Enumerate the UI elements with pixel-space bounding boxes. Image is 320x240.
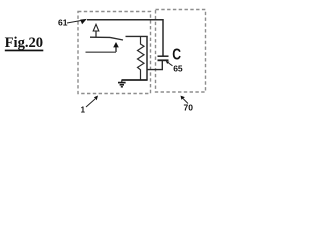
- leader arrow for 70: [181, 96, 189, 104]
- wire: switch contact to right branch: [126, 35, 148, 37]
- svg-text:61: 61: [58, 18, 68, 28]
- hollow arrow (contact indicator): [93, 24, 99, 37]
- wire: bottom rail: [122, 79, 148, 81]
- svg-text:70: 70: [184, 103, 194, 113]
- leader arrow for 65: [166, 61, 173, 66]
- resistor: [138, 36, 145, 80]
- svg-text:1: 1: [81, 105, 86, 114]
- svg-text:C: C: [172, 47, 181, 64]
- figure title Fig.20: [5, 35, 44, 51]
- leader arrow for 61: [67, 19, 87, 24]
- wire: right vertical branch: [146, 36, 148, 80]
- dashed box 1 (circuit block 1): [78, 12, 151, 94]
- capacitor C (65): [147, 56, 169, 69]
- wire: L-wire under actuation arrow: [86, 51, 117, 53]
- wire: top rail from box1 corner to capacitor branch: [87, 20, 163, 56]
- ground: [118, 80, 126, 87]
- svg-text:65: 65: [173, 63, 183, 73]
- wire: under hollow arrow: [90, 36, 110, 38]
- svg-text:Fig.20: Fig.20: [5, 35, 44, 51]
- leader arrow for 1: [86, 96, 98, 108]
- switch blade: [110, 37, 123, 40]
- dashed box 2 (circuit block 70): [156, 10, 206, 93]
- solid actuation arrow: [113, 42, 119, 52]
